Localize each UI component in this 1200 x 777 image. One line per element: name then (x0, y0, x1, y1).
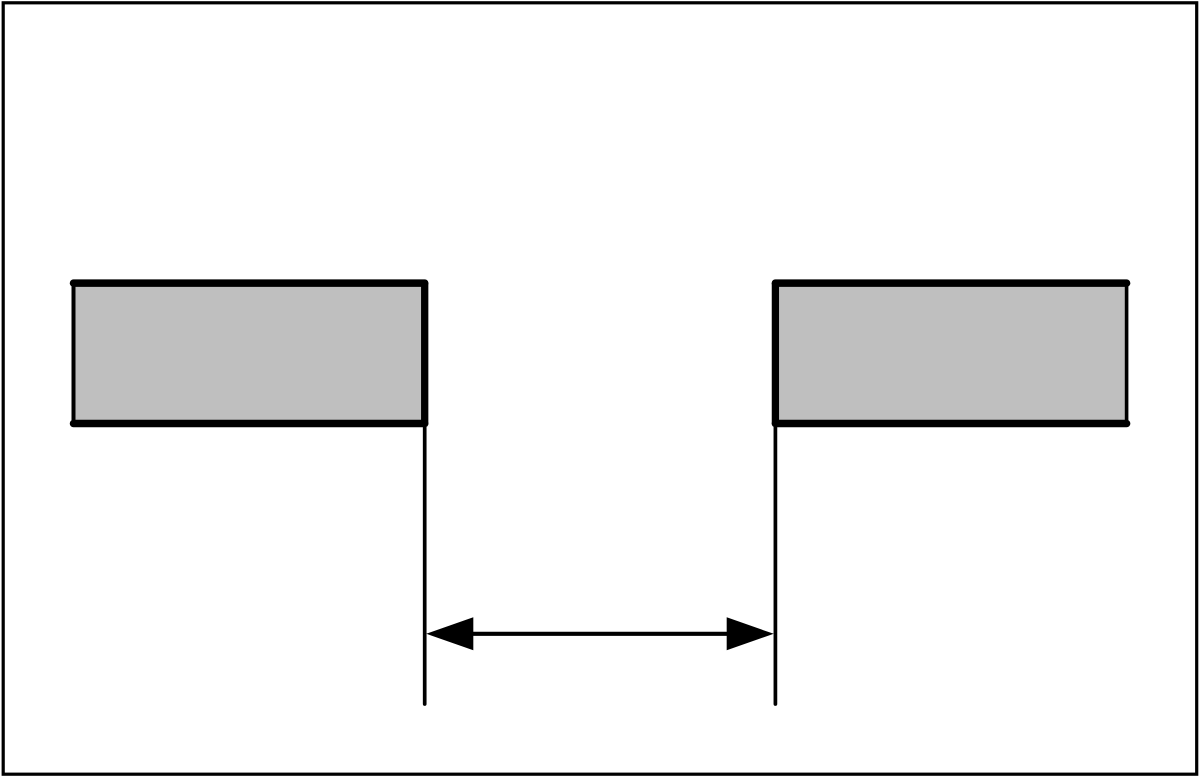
right extension line (774, 424, 778, 704)
right plate fill (775, 283, 1126, 423)
left extension line (423, 424, 427, 704)
right plate bottom edge (775, 420, 1126, 428)
left plate right edge (421, 283, 428, 423)
right arrowhead (727, 617, 774, 650)
left plate top edge (74, 279, 425, 287)
left plate bottom edge (74, 420, 425, 428)
left arrowhead (426, 617, 473, 650)
right plate left edge (772, 283, 779, 423)
dimension arrow shaft (465, 632, 735, 636)
left plate left edge (72, 283, 76, 423)
left plate fill (74, 283, 425, 423)
right plate right edge (1125, 283, 1129, 423)
right plate top edge (775, 279, 1126, 287)
